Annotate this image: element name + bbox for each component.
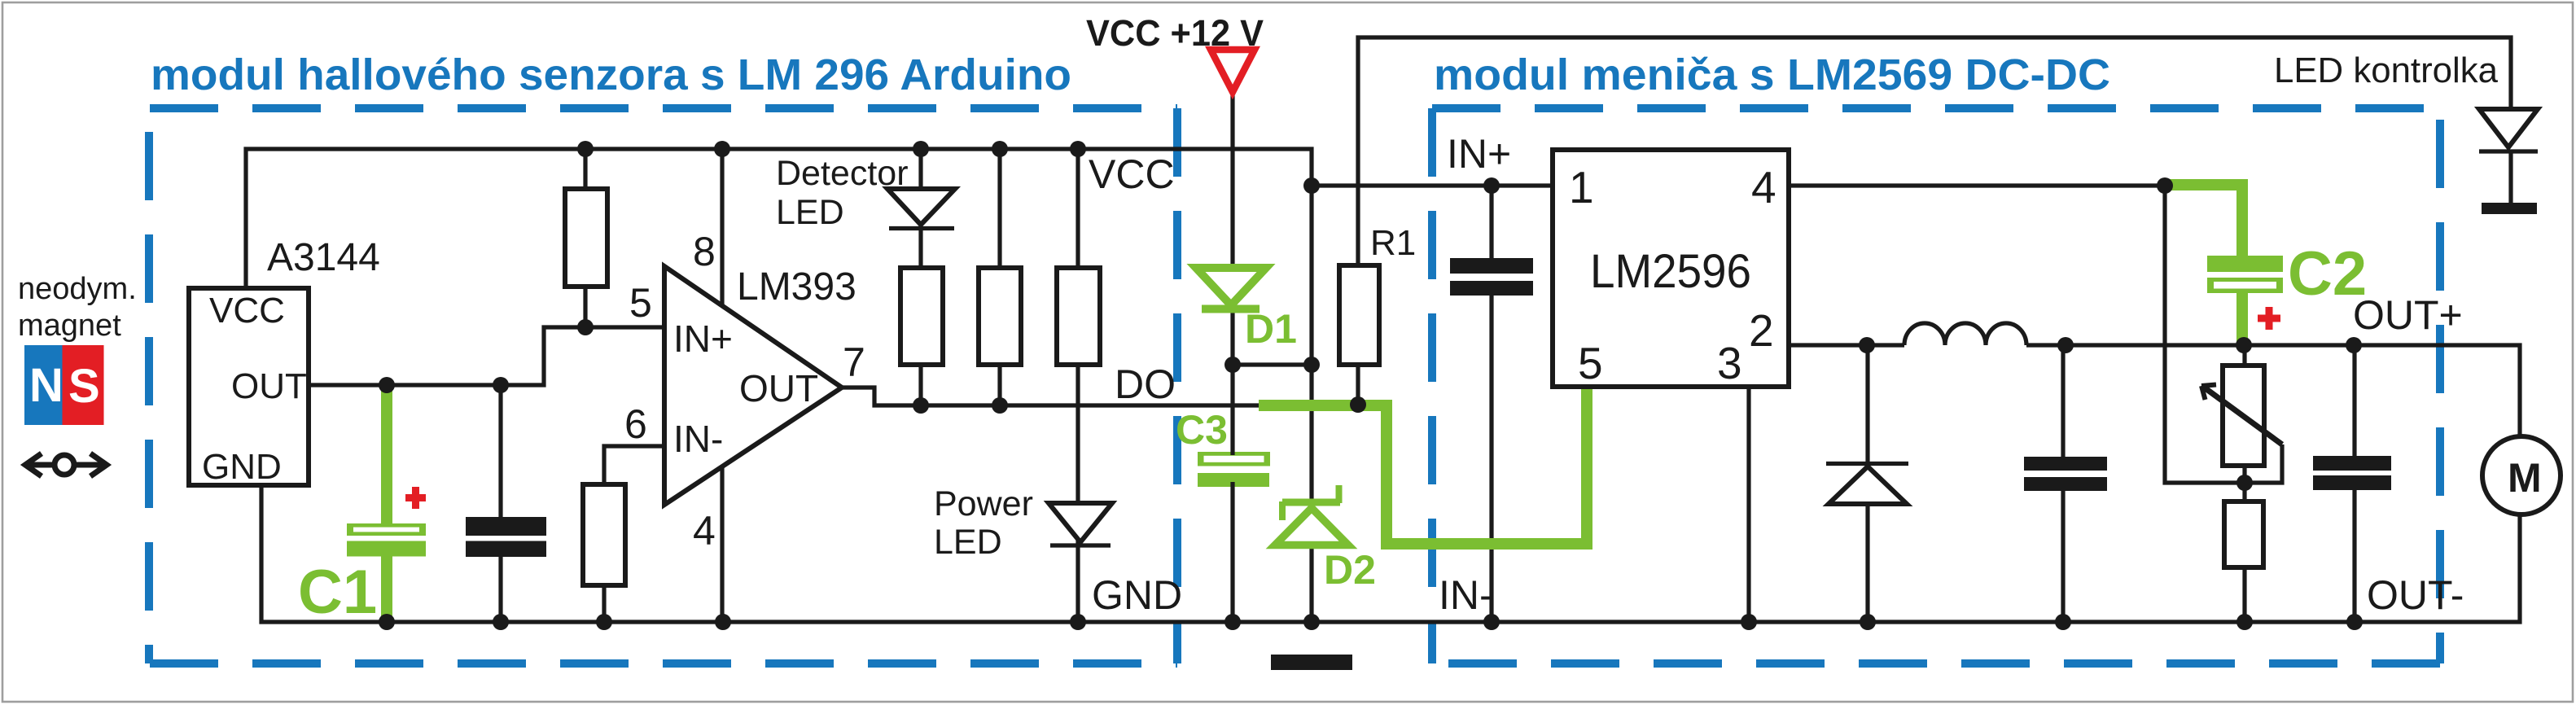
resistor DO pull-up (979, 268, 1021, 365)
wire power LED chain (1076, 149, 1080, 622)
module 1 dashed box (149, 108, 1177, 663)
wire VCC top rail with A3144 riser and drop to D2 node (246, 149, 1312, 365)
junction dot pot wiper (2236, 475, 2253, 491)
capacitor C3 leads (1230, 365, 1234, 455)
svg-text:LED kontrolka: LED kontrolka (2274, 50, 2499, 90)
wire ground rail (261, 485, 2520, 622)
wire LED kontrolka to ground (2508, 153, 2512, 204)
svg-text:C1: C1 (298, 558, 377, 627)
wire feedback branch to pot wiper (2165, 186, 2282, 483)
svg-text:LM2596: LM2596 (1590, 245, 1751, 298)
svg-text:4: 4 (693, 508, 716, 554)
wire mid capacitor bottom lead (2061, 491, 2065, 622)
svg-text:N: N (29, 359, 64, 412)
wire R1 riser and LED kontrolka rail (1358, 37, 2511, 405)
ground symbol LED kontrolka (2482, 203, 2537, 214)
LED power symbol (1049, 503, 1112, 545)
diode D1 (1196, 268, 1266, 309)
capacitor mid plates (2024, 457, 2107, 491)
wire output cap bottom lead (2352, 490, 2356, 622)
capacitor C2 polarity + (2258, 307, 2280, 330)
svg-text:LED: LED (934, 523, 1002, 562)
resistor divider top (565, 189, 607, 287)
svg-text:2: 2 (1749, 305, 1774, 356)
svg-text:Power: Power (934, 484, 1033, 523)
svg-text:modul hallového senzora s LM 2: modul hallového senzora s LM 296 Arduino (151, 50, 1071, 99)
svg-text:D1: D1 (1245, 306, 1297, 352)
ground symbol module middle (1271, 655, 1352, 670)
svg-text:3: 3 (1717, 338, 1742, 388)
svg-text:DO: DO (1115, 361, 1176, 407)
svg-text:IN+: IN+ (673, 317, 733, 360)
resistor divider bottom (583, 484, 625, 585)
svg-text:OUT-: OUT- (2367, 572, 2464, 618)
svg-text:8: 8 (693, 229, 716, 274)
wire lower resistor branch (2242, 483, 2246, 622)
wire input capacitor top lead (1489, 186, 1493, 258)
wire DO pull-up chain (997, 149, 1001, 405)
capacitor input plates (1450, 258, 1533, 296)
svg-text:7: 7 (843, 339, 865, 385)
LED kontrolka symbol (2479, 109, 2538, 151)
LED detector label (776, 154, 909, 232)
capacitor C1 plates (347, 523, 426, 557)
svg-text:M: M (2508, 455, 2542, 501)
junction dot IN+ divider (577, 319, 594, 335)
regulator U2 LM2596 box (1553, 150, 1789, 387)
magnet motion arrow (25, 453, 107, 476)
zener diode D2 (1275, 485, 1348, 545)
junction dots DO (913, 396, 1366, 414)
junction dots ground rail (379, 614, 2363, 630)
wire op-amp pin 8 (720, 149, 724, 306)
wire LM2596 pin 4 to feedback node (1789, 183, 2166, 187)
resistor R1 (1339, 265, 1379, 365)
svg-text:LED: LED (776, 193, 844, 232)
junction dots IN+ rail (1303, 177, 1500, 194)
wire detector LED chain (918, 149, 922, 405)
LED power label (934, 484, 1033, 562)
resistor power LED (1057, 268, 1100, 365)
wire input capacitor bottom lead (1489, 296, 1493, 622)
wire LM2596 pin 2 output rail (1789, 345, 2520, 437)
junction dots hall OUT (379, 377, 509, 393)
svg-text:IN-: IN- (673, 418, 723, 460)
junction dot feedback node (2157, 177, 2173, 194)
wire pin 4 to C2 (green) (2166, 185, 2242, 258)
wire DO to LM2596 pin 5 (green) (1259, 387, 1587, 544)
wire op-amp pin 4 (720, 466, 724, 622)
svg-text:1: 1 (1569, 162, 1594, 212)
svg-text:VCC +12 V: VCC +12 V (1086, 12, 1264, 54)
wire IN+ rail (1312, 183, 1553, 187)
wire hall OUT to IN+ (309, 327, 664, 385)
capacitor C1 polarity + (405, 487, 426, 509)
svg-text:modul meniča s LM2569 DC-DC: modul meniča s LM2569 DC-DC (1434, 50, 2110, 99)
svg-text:C3: C3 (1176, 407, 1228, 453)
wire D2 branch to ground (1309, 365, 1313, 622)
svg-text:S: S (68, 360, 100, 413)
motor M1 (2482, 436, 2561, 515)
wire module1 filter cap top lead (498, 385, 502, 517)
hall sensor A3144 box (189, 288, 309, 485)
svg-text:5: 5 (1578, 338, 1603, 388)
svg-text:OUT: OUT (231, 366, 307, 406)
capacitor C3 plates (1198, 452, 1270, 487)
LED detector symbol (887, 189, 955, 229)
schottky diode symbol (1826, 464, 1908, 505)
svg-text:IN+: IN+ (1447, 131, 1511, 177)
capacitor C2 plates (2207, 256, 2283, 293)
svg-text:IN-: IN- (1439, 572, 1493, 618)
resistor below potentiometer (2224, 501, 2263, 567)
op-amp U1 LM393 (664, 266, 842, 505)
capacitor C1 lead (381, 385, 392, 529)
wire LM2596 pin 3 (1746, 387, 1750, 622)
svg-text:GND: GND (1092, 572, 1182, 618)
magnet label neodym. magnet (18, 272, 137, 343)
wire divider chain pin5 (583, 149, 587, 327)
svg-text:6: 6 (624, 401, 647, 447)
capacitor output plates (2313, 456, 2391, 490)
wire IN- divider (604, 446, 664, 622)
svg-text:VCC: VCC (1089, 151, 1175, 197)
capacitor module1 filter plates (466, 517, 546, 557)
svg-text:R1: R1 (1370, 223, 1416, 263)
wire module1 filter cap bottom lead (498, 557, 502, 622)
svg-text:Detector: Detector (776, 154, 909, 193)
wire op-amp output DO (842, 388, 1259, 405)
svg-text:D2: D2 (1324, 547, 1376, 593)
svg-text:LM393: LM393 (737, 265, 856, 309)
wire mid capacitor top lead (2061, 345, 2065, 457)
svg-text:OUT+: OUT+ (2353, 292, 2463, 338)
svg-text:A3144: A3144 (267, 236, 380, 279)
resistor detector LED (900, 268, 943, 365)
wire schottky diode branch (1865, 345, 1869, 622)
wire output cap top lead (2352, 345, 2356, 456)
inductor L1 (1904, 323, 2026, 345)
potentiometer body (2223, 366, 2264, 466)
svg-text:neodym.: neodym. (18, 272, 137, 306)
magnet S pole (63, 345, 104, 425)
junction dots D1 node (1224, 357, 1320, 373)
svg-text:VCC: VCC (209, 291, 285, 331)
wire VCC+12V to D1 (1230, 93, 1234, 365)
svg-text:GND: GND (202, 447, 282, 487)
power symbol VCC +12V triangle (1211, 50, 1255, 92)
module 2 dashed box (1432, 108, 2440, 663)
wire pot top branch (2242, 345, 2246, 483)
svg-text:5: 5 (629, 280, 652, 326)
svg-text:4: 4 (1751, 162, 1776, 212)
svg-text:OUT: OUT (739, 367, 818, 409)
svg-text:magnet: magnet (18, 309, 121, 343)
potentiometer wiper arrow (2201, 385, 2282, 445)
junction dots top rail (577, 141, 1086, 157)
capacitor C2 lead (2236, 289, 2248, 345)
magnet N pole (24, 345, 64, 425)
junction dots output rail (1859, 337, 2362, 353)
wire D1 to D2 node (1233, 362, 1312, 366)
